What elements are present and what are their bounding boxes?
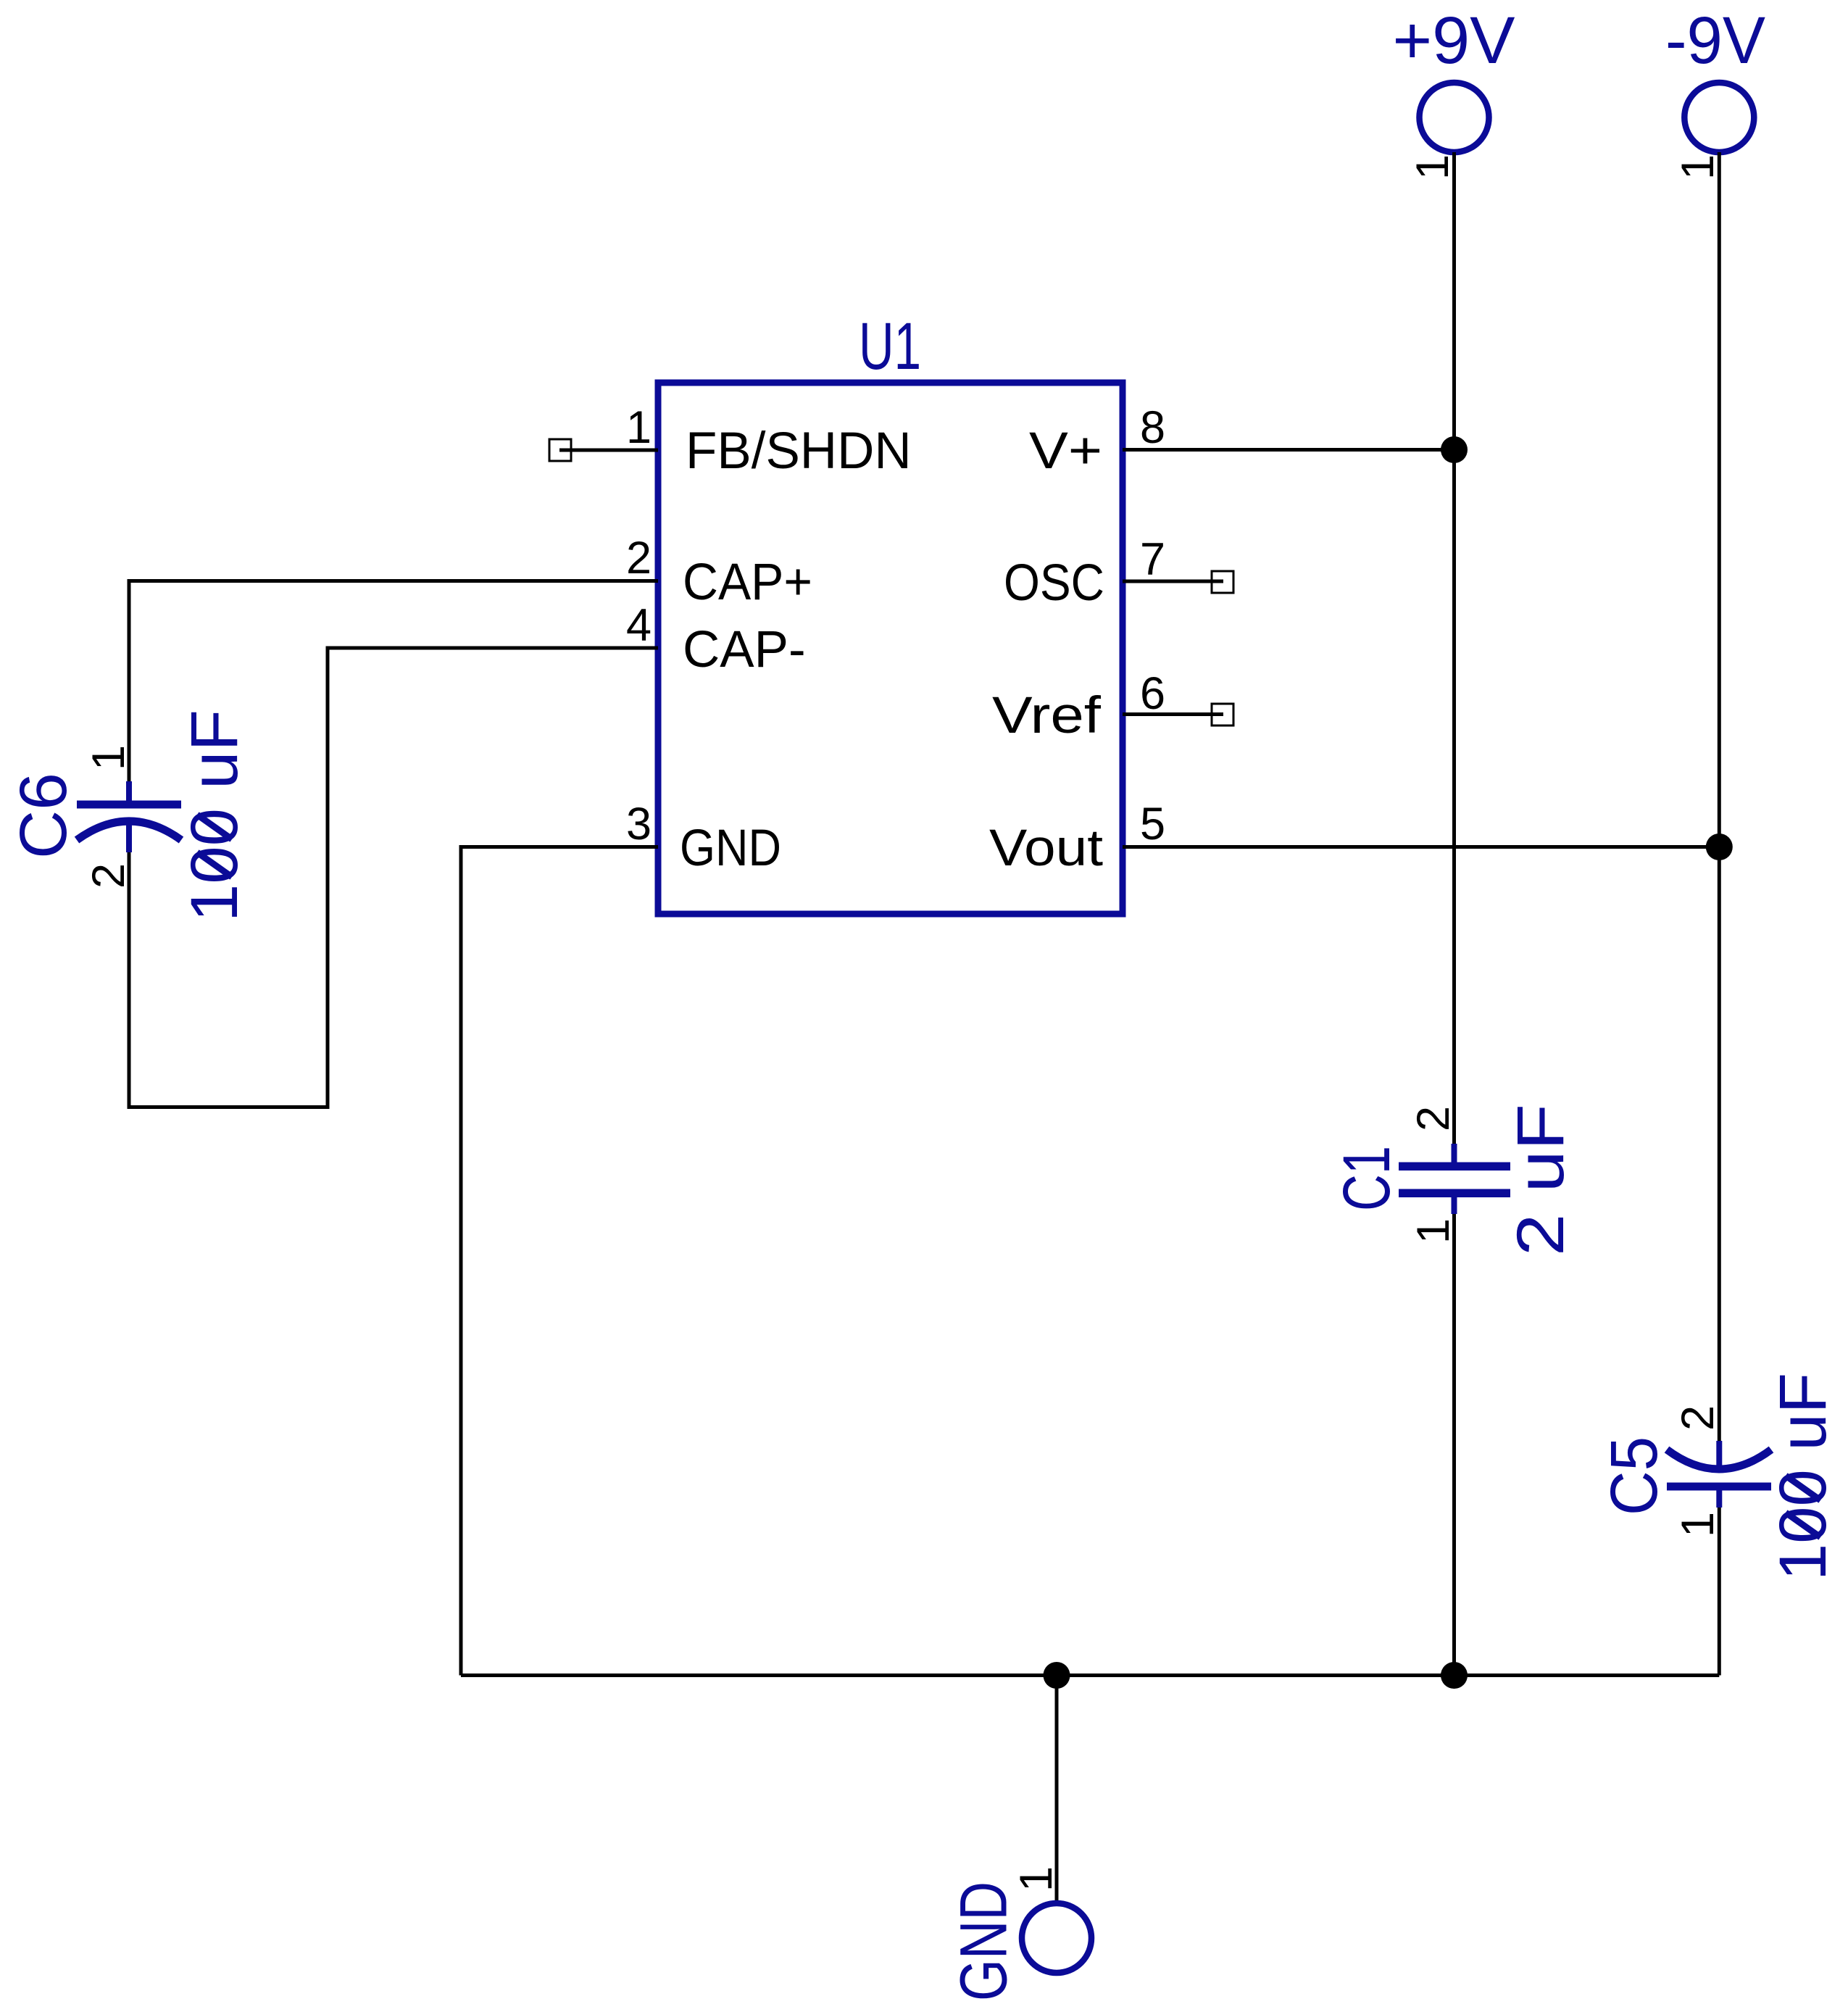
svg-text:3: 3 [626, 799, 652, 849]
svg-text:1: 1 [626, 402, 652, 453]
wire U1 pin 6 Vref stub [1123, 712, 1223, 716]
svg-text:U1: U1 [859, 309, 921, 383]
svg-text:6: 6 [1140, 668, 1165, 719]
svg-text:CAP-: CAP- [683, 621, 806, 678]
svg-text:100 uF: 100 uF [1766, 1373, 1840, 1581]
junction dot ground rail / +9V branch [1441, 1662, 1468, 1689]
svg-text:C1: C1 [1330, 1146, 1404, 1211]
svg-text:FB/SHDN: FB/SHDN [686, 423, 912, 480]
svg-text:C6: C6 [7, 773, 80, 859]
capacitor C5 (100 uF polarized) [1667, 1441, 1771, 1508]
svg-text:2: 2 [1673, 1405, 1723, 1431]
IC U1 body [658, 383, 1123, 914]
wire capacitor C5 to ground rail [1718, 1508, 1721, 1676]
svg-text:2: 2 [626, 533, 652, 583]
svg-text:4: 4 [626, 600, 652, 651]
svg-text:GND: GND [947, 1882, 1021, 2001]
junction dot Vout / -9V [1706, 833, 1733, 860]
svg-text:1: 1 [1673, 1512, 1723, 1537]
svg-text:2: 2 [83, 863, 134, 889]
svg-text:Vref: Vref [992, 687, 1101, 744]
svg-text:CAP+: CAP+ [683, 554, 812, 611]
svg-text:-9V: -9V [1665, 4, 1765, 78]
wire ground rail down to GND terminal [1055, 1676, 1059, 1904]
svg-text:GND: GND [680, 820, 781, 877]
svg-text:100 uF: 100 uF [178, 710, 251, 922]
U1 pin 7 open terminal square [1212, 571, 1233, 593]
capacitor C6 (100 uF polarized) [77, 781, 181, 852]
wire U1 pin 3 GND to ground rail [461, 847, 658, 1676]
GND power terminal circle [1022, 1903, 1091, 1973]
wire U1 pin 5 Vout to -9V net [1123, 845, 1719, 849]
svg-text:1: 1 [1407, 154, 1458, 180]
svg-text:2: 2 [1408, 1106, 1459, 1131]
svg-text:1: 1 [83, 745, 134, 770]
junction dot V+ / +9V [1441, 436, 1468, 463]
svg-text:2 uF: 2 uF [1504, 1104, 1578, 1256]
wire U1 pin 1 stub [559, 449, 658, 452]
svg-text:1: 1 [1673, 154, 1723, 180]
wire U1 pin 7 OSC stub [1123, 580, 1223, 583]
ground rail wire [461, 1674, 1719, 1677]
svg-text:OSC: OSC [1004, 554, 1104, 612]
wire U1 pin 4 CAP- to capacitor C6 pin 2 [129, 648, 658, 1107]
-9V power terminal circle [1684, 83, 1754, 152]
junction dot ground rail / GND terminal [1044, 1662, 1070, 1689]
wire -9V terminal down to capacitor C5 [1718, 152, 1721, 1441]
wire +9V terminal down to capacitor C1 [1452, 152, 1456, 1144]
svg-text:1: 1 [1408, 1218, 1459, 1244]
svg-text:5: 5 [1140, 799, 1165, 849]
wire capacitor C1 to ground rail [1452, 1214, 1456, 1676]
svg-text:Vout: Vout [989, 820, 1103, 877]
U1 pin 1 open terminal square [549, 439, 571, 461]
svg-text:8: 8 [1140, 402, 1165, 453]
svg-text:+9V: +9V [1393, 4, 1515, 78]
U1 pin 6 open terminal square [1212, 704, 1233, 725]
svg-text:C5: C5 [1597, 1437, 1671, 1516]
capacitor C1 (2 uF) [1399, 1144, 1510, 1214]
svg-text:7: 7 [1140, 534, 1165, 585]
svg-text:1: 1 [1011, 1866, 1062, 1892]
wire U1 pin 2 CAP+ to capacitor C6 pin 1 [129, 581, 658, 782]
svg-text:V+: V+ [1029, 423, 1102, 480]
+9V power terminal circle [1420, 83, 1489, 152]
wire U1 pin 8 V+ to +9V net [1123, 448, 1454, 452]
